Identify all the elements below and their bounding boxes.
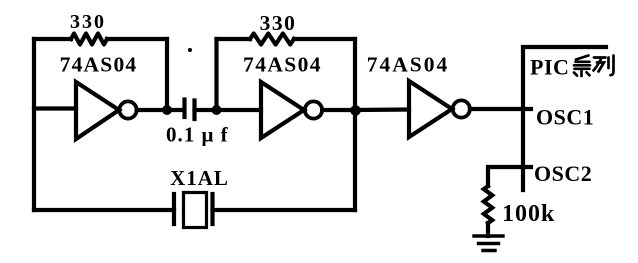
wire: bottom crystal loop, right segment: [213, 208, 356, 212]
inverter U2 output bubble: [305, 101, 322, 118]
wire: OSC2 pin stub left: [488, 167, 531, 186]
stray ink speck: [188, 48, 192, 52]
wire: node C to U3 input: [355, 107, 409, 112]
node B junction dot (C1 / R2 / U2 in): [212, 105, 222, 115]
inverter U1 output bubble: [119, 101, 136, 118]
capacitor C1 left plate: [182, 100, 186, 118]
op-amp/inverter U1 74AS04 triangle: [76, 82, 119, 139]
ground symbol: [474, 236, 503, 251]
wire: bottom crystal loop, left segment: [34, 208, 174, 212]
wire: U1 feedback top, right lead: [107, 37, 167, 41]
node A junction dot (U1 out / R1 / C1): [162, 105, 172, 115]
wire: U2 output to node C: [322, 108, 355, 112]
wire: C1 to U2 input: [195, 108, 262, 112]
op-amp/inverter U2 74AS04 triangle: [261, 82, 304, 138]
svg-text:OSC2: OSC2: [534, 161, 592, 186]
svg-text:X1AL: X1AL: [170, 166, 229, 190]
wire: U2 feedback top, left lead: [217, 37, 251, 41]
svg-text:74AS04: 74AS04: [243, 53, 322, 77]
svg-text:74AS04: 74AS04: [60, 53, 138, 77]
resistor R2 (330) zigzag: [250, 34, 294, 45]
svg-text:OSC1: OSC1: [536, 105, 594, 130]
wire: R3 to ground: [486, 223, 490, 236]
resistor R1 (330) zigzag: [71, 34, 107, 45]
crystal X1AL body rectangle: [184, 193, 207, 228]
svg-text:330: 330: [70, 11, 106, 33]
svg-text:PIC: PIC: [530, 55, 569, 80]
wire: U1 feedback top, left lead: [34, 37, 71, 41]
PIC microcontroller box outline (partial): [523, 47, 606, 190]
wire: U2 feedback top, right lead: [294, 37, 355, 41]
node C junction dot (U2 out / R2 / XTAL / U3 in): [350, 105, 361, 116]
wire: U1 input stub: [34, 106, 76, 110]
svg-text:100k: 100k: [502, 201, 555, 227]
wire: U2 feedback right vertical rail down to crystal loop: [353, 39, 357, 210]
inverter U3 output bubble: [453, 100, 470, 117]
wire: U2 feedback loop left vertical: [214, 39, 218, 110]
crystal X1AL right plate: [210, 194, 214, 224]
svg-text:330: 330: [260, 11, 297, 35]
crystal X1AL left plate: [172, 194, 176, 224]
resistor R3 (100k) vertical zigzag: [484, 186, 492, 223]
svg-text:0.1 μ f: 0.1 μ f: [166, 123, 229, 147]
svg-text:74AS04: 74AS04: [367, 53, 449, 77]
capacitor C1 right plate: [192, 101, 196, 120]
label PIC chip name CJK: 系列 (hand drawn strokes): [574, 56, 614, 77]
wire: U3 output to PIC OSC1 pin: [470, 107, 531, 111]
wire: U1 output to capacitor C1: [137, 108, 184, 112]
op-amp/inverter U3 74AS04 triangle: [409, 81, 452, 137]
wire: U1 feedback loop left vertical rail: [32, 39, 36, 210]
wire: U1 feedback right vertical drop to output node: [165, 39, 169, 110]
